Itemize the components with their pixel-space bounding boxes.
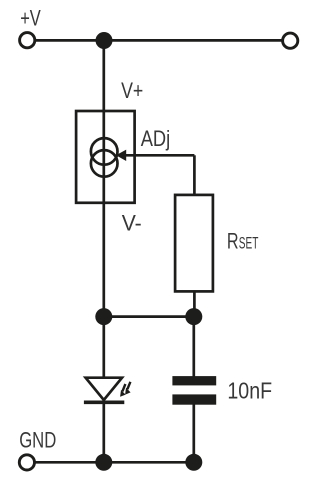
capacitor C1 bottom plate xyxy=(172,394,216,404)
ADj arrowhead xyxy=(116,150,126,161)
capacitor C1 top plate xyxy=(172,376,216,385)
svg-text:+V: +V xyxy=(20,6,41,31)
node junction bottom-right xyxy=(185,454,202,471)
wire bottom rail xyxy=(34,461,194,464)
svg-text:SET: SET xyxy=(239,234,259,252)
svg-text:10nF: 10nF xyxy=(227,377,272,403)
wire junction row xyxy=(104,315,194,318)
svg-text:GND: GND xyxy=(19,428,56,453)
current source circle lower xyxy=(91,150,118,177)
svg-text:V-: V- xyxy=(122,210,142,235)
node junction mid-left xyxy=(95,308,112,325)
svg-text:ADj: ADj xyxy=(141,126,171,151)
LED light arrow right xyxy=(125,382,131,395)
current source circle upper xyxy=(91,138,118,165)
LED D1 cathode bar xyxy=(84,400,124,404)
node junction mid-right xyxy=(185,308,202,325)
svg-text:R: R xyxy=(227,228,239,253)
current source U1 box xyxy=(76,111,135,203)
wire resistor to junction xyxy=(193,290,196,317)
LED light arrow left xyxy=(120,384,126,397)
resistor R-SET xyxy=(175,195,213,292)
wire capacitor to bottom junction xyxy=(192,404,195,462)
wire top rail xyxy=(33,39,284,42)
terminal GND xyxy=(19,455,34,470)
wire ADj to resistor xyxy=(193,155,196,196)
node junction bottom-left xyxy=(95,454,112,471)
node junction top xyxy=(96,32,113,49)
wire ADj horizontal xyxy=(125,154,195,157)
wire main vertical upper xyxy=(102,40,105,378)
svg-text:V+: V+ xyxy=(121,78,143,103)
terminal right xyxy=(283,33,298,48)
LED D1 triangle xyxy=(86,378,122,400)
wire LED to bottom rail xyxy=(102,402,105,462)
terminal +V xyxy=(20,33,35,48)
wire junction to capacitor xyxy=(192,317,195,377)
